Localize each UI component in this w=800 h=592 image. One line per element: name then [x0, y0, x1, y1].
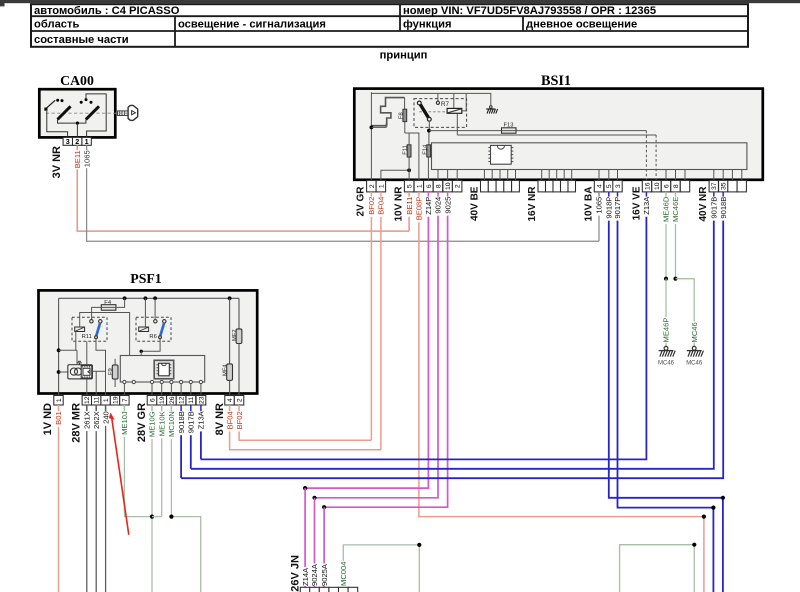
svg-text:1: 1 — [378, 184, 385, 188]
svg-text:8: 8 — [435, 184, 442, 188]
PSF1 pump/motor symbol — [68, 365, 93, 379]
wire BE11 (CA00 pin2 to BSI 10V NR pin5) — [408, 192, 410, 197]
relay R6 — [136, 317, 171, 341]
svg-text:11: 11 — [94, 396, 101, 403]
wire 240 — [105, 405, 107, 411]
wire 9025 / 9025A — [447, 192, 449, 197]
svg-text:6: 6 — [426, 184, 433, 188]
svg-text:19: 19 — [159, 396, 166, 404]
svg-text:CA00: CA00 — [60, 73, 94, 88]
svg-text:3: 3 — [615, 184, 622, 188]
wire B01 (PSF1 to bottom) — [58, 405, 60, 411]
connector 26V JN — [300, 587, 310, 592]
svg-text:9017B: 9017B — [710, 197, 719, 219]
svg-text:9017P: 9017P — [613, 197, 622, 219]
svg-text:ME10J: ME10J — [120, 411, 129, 435]
PSF1 IC symbol — [154, 360, 174, 379]
svg-text:BE11: BE11 — [405, 197, 414, 215]
svg-text:5: 5 — [606, 184, 613, 188]
svg-text:MC46: MC46 — [690, 322, 699, 342]
svg-text:262X: 262X — [92, 411, 101, 429]
BSI connector 40V BE pins — [481, 180, 489, 192]
svg-text:номер VIN: VF7UD5FV8AJ793558 /: номер VIN: VF7UD5FV8AJ793558 / OPR : 123… — [403, 5, 656, 17]
svg-text:9025A: 9025A — [320, 563, 329, 586]
svg-text:4: 4 — [227, 398, 234, 402]
wire 9018B (PSF1 riser) — [180, 405, 182, 411]
PSF1 inner module box — [120, 356, 204, 383]
wire BF02 label (BSI side) + riser — [370, 192, 372, 197]
PSF1 connector 28V GR pins — [147, 396, 157, 406]
svg-text:ME46P: ME46P — [662, 318, 671, 343]
wire Z13A (BSI 16V VE pin16 to PSF1 pin23) — [645, 192, 647, 197]
svg-text:F14: F14 — [422, 144, 428, 155]
svg-text:12: 12 — [179, 396, 186, 404]
BSI1 IC symbol — [491, 145, 512, 164]
svg-text:16V NR: 16V NR — [527, 186, 538, 222]
svg-text:10: 10 — [654, 182, 661, 190]
wire MC46E (BSI 16V VE pin8 to ground MC46) — [675, 192, 677, 197]
svg-text:функция: функция — [403, 19, 452, 31]
fuse MF2 — [238, 298, 240, 329]
svg-text:MF2: MF2 — [232, 329, 238, 341]
svg-text:3V NR: 3V NR — [51, 146, 63, 178]
svg-text:26: 26 — [169, 396, 176, 404]
svg-text:9025: 9025 — [443, 197, 452, 214]
CA00 key symbol — [118, 111, 129, 116]
svg-text:261X: 261X — [83, 411, 92, 429]
BSI1 connector glyph — [371, 98, 404, 126]
svg-text:BSI1: BSI1 — [541, 73, 571, 89]
fuse F9 — [112, 365, 118, 379]
svg-text:9017B: 9017B — [187, 411, 196, 433]
svg-text:MC10N: MC10N — [167, 411, 176, 437]
svg-text:8: 8 — [673, 184, 680, 188]
relay R7 — [414, 99, 467, 128]
wire ME46D (BSI 16V VE pin6 to ground MC46) — [665, 192, 667, 197]
wire 9024 / 9024A — [437, 192, 439, 197]
svg-text:10: 10 — [445, 182, 452, 190]
BSI connector 16V NR pins — [538, 180, 546, 192]
BSI connector 2V GR pins 2,1 — [367, 180, 377, 192]
svg-text:40V BE: 40V BE — [470, 186, 481, 221]
fuse F8 — [404, 98, 406, 110]
svg-text:MC46: MC46 — [686, 360, 703, 366]
ground loop wire (bottom right) — [620, 545, 695, 592]
svg-text:12: 12 — [84, 396, 91, 404]
svg-text:10V BA: 10V BA — [583, 186, 594, 221]
svg-text:7: 7 — [122, 398, 129, 402]
wire 9017P (BSI 10V BA pin3 to bottom right) — [617, 192, 619, 197]
R6 wires — [144, 298, 146, 327]
wire 1065 (CA00 pin1 to BSI 10V BA pin4) — [598, 192, 600, 197]
wire MC10N — [170, 405, 172, 411]
svg-text:3: 3 — [66, 137, 70, 146]
svg-text:11: 11 — [188, 396, 195, 403]
svg-text:6: 6 — [663, 184, 670, 188]
svg-text:ME10G: ME10G — [148, 411, 157, 437]
BSI internal bus / fuse F13 — [429, 130, 647, 132]
svg-text:9018B: 9018B — [177, 411, 186, 433]
svg-text:1: 1 — [85, 137, 89, 146]
svg-text:BE08P: BE08P — [415, 197, 424, 221]
annotation arrow (points to PSF1 pin 19) — [112, 417, 129, 535]
svg-text:освещение - сигнализация: освещение - сигнализация — [178, 19, 326, 31]
svg-text:MC004: MC004 — [339, 562, 348, 586]
svg-text:40V NR: 40V NR — [698, 186, 709, 222]
svg-text:дневное освещение: дневное освещение — [526, 19, 637, 31]
svg-text:9024A: 9024A — [310, 563, 319, 586]
svg-text:1: 1 — [103, 398, 110, 402]
wire 9018B (BSI 40V NR pin35 to PSF1 pin12) — [722, 192, 724, 197]
BSI connector 40V NR pins 37,35 — [709, 180, 718, 192]
ground (BSI internal) — [462, 93, 466, 111]
svg-text:MC46: MC46 — [658, 360, 675, 366]
wire BF04 (PSF1 to BSI) — [229, 405, 231, 411]
wire ME10K — [161, 405, 163, 411]
svg-text:28V GR: 28V GR — [136, 403, 148, 442]
svg-text:MC46E: MC46E — [671, 197, 680, 222]
PSF1 top bus — [59, 297, 239, 299]
BSI connector 10V NR pins — [404, 180, 414, 192]
svg-text:23: 23 — [198, 396, 205, 404]
svg-text:16V VE: 16V VE — [632, 186, 643, 220]
svg-text:16: 16 — [644, 182, 651, 190]
svg-text:5: 5 — [407, 184, 414, 188]
wire ME10J — [123, 405, 125, 411]
svg-text:28V MR: 28V MR — [71, 403, 83, 443]
svg-text:PSF1: PSF1 — [130, 271, 162, 286]
svg-text:BF02: BF02 — [235, 411, 244, 429]
svg-text:1065: 1065 — [82, 150, 91, 167]
svg-text:F9: F9 — [108, 368, 114, 375]
wire BF04 internal / fuse F11 — [381, 170, 409, 180]
svg-text:19: 19 — [112, 396, 119, 404]
svg-text:R6: R6 — [149, 334, 156, 340]
top frame bar — [0, 0, 800, 3]
ground MC46 (left) — [664, 346, 668, 350]
svg-text:Z14A: Z14A — [301, 567, 310, 586]
svg-text:BF04: BF04 — [225, 411, 234, 429]
svg-text:1V ND: 1V ND — [42, 403, 54, 435]
svg-text:BF04: BF04 — [377, 197, 386, 215]
wire 9018P (BSI 10V BA pin5 to bottom right) — [608, 192, 610, 197]
svg-text:ME46D: ME46D — [662, 196, 671, 222]
svg-text:9018B: 9018B — [719, 197, 728, 219]
svg-text:Z14P: Z14P — [424, 197, 433, 215]
wire BE08P (BSI 10V NR pin1 to bottom) — [418, 192, 420, 197]
wire BF04 label (BSI side) + riser — [380, 192, 382, 197]
svg-text:1: 1 — [56, 398, 63, 402]
header table — [31, 4, 748, 47]
svg-text:BF02: BF02 — [367, 197, 376, 215]
svg-text:принцип: принцип — [380, 50, 428, 62]
svg-text:F8: F8 — [399, 112, 405, 119]
wire 261X — [86, 405, 88, 411]
wire Z14P / Z14A (BSI pin6 to 26V JN) — [427, 192, 429, 197]
svg-text:2: 2 — [455, 184, 462, 188]
svg-text:2V GR: 2V GR — [356, 186, 367, 217]
svg-text:10V NR: 10V NR — [393, 186, 404, 222]
svg-text:4: 4 — [596, 184, 603, 188]
svg-text:MF4: MF4 — [223, 364, 229, 376]
relay R11 — [72, 317, 107, 341]
wire B01 internal — [58, 298, 60, 395]
svg-text:8V NR: 8V NR — [214, 403, 226, 435]
svg-text:F11: F11 — [403, 145, 409, 155]
svg-text:автомобиль : C4 PICASSO: автомобиль : C4 PICASSO — [34, 5, 180, 17]
svg-text:2: 2 — [237, 398, 244, 402]
svg-text:Z13A: Z13A — [642, 196, 651, 215]
svg-text:240: 240 — [101, 411, 110, 424]
BSI connector 16V VE pins — [642, 180, 651, 192]
svg-text:37: 37 — [711, 182, 718, 190]
CA00 pins 3 2 1 — [63, 137, 72, 145]
svg-text:26V JN: 26V JN — [290, 555, 302, 592]
PSF1 module outputs — [123, 380, 126, 383]
BSI1 inner module box — [432, 143, 747, 170]
svg-text:Z13A: Z13A — [197, 410, 206, 429]
wire BF02 (PSF1 to BSI) — [238, 405, 240, 411]
svg-text:35: 35 — [721, 182, 728, 190]
svg-text:6: 6 — [149, 398, 156, 402]
wire ME10G — [151, 405, 153, 411]
svg-text:ME10K: ME10K — [157, 411, 166, 436]
wire 262X — [95, 405, 97, 411]
R11 wires — [80, 313, 130, 356]
svg-text:R7: R7 — [441, 101, 449, 108]
PSF1 connector 1V ND pin 1 — [54, 396, 63, 406]
svg-text:B01: B01 — [54, 411, 63, 425]
BSI pin stubs — [437, 170, 439, 181]
svg-text:2: 2 — [369, 184, 376, 188]
svg-text:R11: R11 — [82, 334, 92, 340]
svg-text:1065: 1065 — [595, 197, 604, 214]
svg-text:9018P: 9018P — [605, 197, 614, 219]
svg-text:9024: 9024 — [434, 197, 443, 214]
BSI connector 10V BA pins 4,5,3 — [594, 180, 603, 192]
PSF1 connector 8V NR pins 4,2 — [225, 396, 235, 406]
svg-text:BE11: BE11 — [73, 150, 82, 168]
svg-text:2: 2 — [75, 137, 79, 146]
wire 9017B (BSI 40V NR pin37 to PSF1 pin11) — [713, 192, 715, 197]
svg-text:область: область — [34, 19, 79, 31]
fuse F14 — [428, 121, 430, 130]
svg-text:1: 1 — [416, 184, 423, 188]
svg-text:составные части: составные части — [34, 34, 129, 46]
ground MC46 (right) — [692, 346, 696, 350]
CA00 internal wires — [47, 111, 68, 138]
fuse MF4 — [229, 298, 231, 364]
wire 9017B (PSF1 riser) — [190, 405, 192, 411]
svg-text:F13: F13 — [504, 123, 514, 129]
CA00 switch internals — [46, 112, 128, 114]
PSF1 connector 28V MR pins — [82, 396, 91, 406]
wire BF02 internal — [370, 92, 372, 180]
wire Z13A (PSF1 riser) — [200, 405, 202, 411]
